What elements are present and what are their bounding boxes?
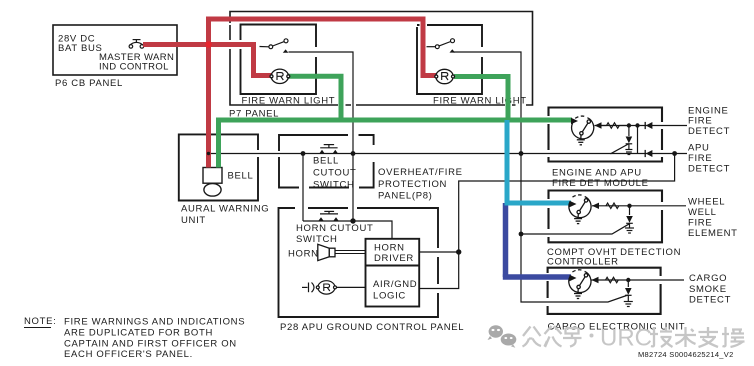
wire black: switch1 output to vertical [289, 52, 354, 221]
号 [563, 328, 582, 347]
fire warn light box 2 [417, 25, 482, 94]
wheel well line with arrow and resistor [592, 205, 686, 207]
svg-text:PANEL(P8): PANEL(P8) [378, 191, 433, 202]
wire black: bell cutout left branch down [302, 154, 304, 222]
cargo electronic unit box [548, 268, 661, 314]
svg-text:URC: URC [600, 325, 652, 352]
P6 CB panel box [53, 25, 177, 75]
down diode to ground in compt module [625, 206, 634, 233]
circuit breaker MASTER WARN IND CONTROL [129, 40, 144, 49]
P8 overheat/fire protection panel box (dashed) [279, 135, 374, 188]
compt controller labels [547, 247, 681, 268]
svg-text:HORN: HORN [288, 249, 319, 260]
svg-text:DETECT: DETECT [688, 164, 730, 175]
svg-text:BELL: BELL [313, 156, 339, 167]
svg-text:FIRE: FIRE [688, 116, 712, 127]
svg-text:FIRE: FIRE [688, 153, 712, 164]
wire black: apu detect return to horn driver / air-gnd [419, 154, 674, 289]
fire warn light box 1 [241, 25, 317, 95]
green arrow into engine detector [571, 118, 578, 124]
svg-text:APU: APU [688, 143, 710, 154]
众 [545, 326, 562, 347]
svg-text:AIR/GND: AIR/GND [373, 279, 417, 290]
wire black: bell control line y=153.5 [209, 153, 688, 155]
svg-text:P6 CB PANEL: P6 CB PANEL [55, 78, 123, 89]
wire red: drop to lamp 2 [421, 17, 426, 79]
svg-text:SWITCH: SWITCH [296, 234, 338, 245]
wire green: drop into aural unit [216, 120, 221, 168]
blue arrow into cargo detector [570, 275, 577, 281]
wire black: horn cutout line [303, 221, 392, 239]
horn speaker symbol [318, 244, 335, 260]
svg-text:CARGO: CARGO [689, 273, 727, 284]
bell cutout switch pushbutton [319, 145, 338, 154]
术 [675, 327, 696, 347]
engine and apu fire det module box [549, 108, 663, 162]
capacitor and lamp in P28 [302, 281, 366, 294]
svg-text:OVERHEAT/FIRE: OVERHEAT/FIRE [378, 167, 463, 178]
支 [699, 327, 719, 347]
援 [722, 327, 745, 347]
note text [24, 316, 245, 360]
P7 panel box [230, 12, 533, 106]
lamp 1 (fire warn light) [270, 69, 290, 83]
svg-text:CAPTAIN AND FIRST OFFICER ON: CAPTAIN AND FIRST OFFICER ON [64, 339, 237, 350]
right side labels [688, 106, 738, 306]
svg-text:HORN: HORN [374, 243, 405, 254]
aural warning unit labels [181, 171, 269, 227]
svg-text:DRIVER: DRIVER [374, 253, 414, 264]
svg-text:ENGINE AND APU: ENGINE AND APU [552, 168, 642, 179]
compt ovht detection controller box [549, 191, 663, 243]
svg-text:BAT BUS: BAT BUS [58, 43, 103, 54]
lamp R label [324, 284, 330, 291]
down diode to ground in engine module [625, 126, 632, 155]
svg-text:CUTOUT: CUTOUT [313, 168, 357, 179]
svg-text:DETECT: DETECT [689, 295, 731, 306]
wire red: CB output horizontal [143, 17, 437, 168]
svg-text:SMOKE: SMOKE [689, 284, 727, 295]
watermark text (stylized CJK strokes) [523, 326, 582, 347]
cargo smoke line with arrow and resistor [592, 279, 685, 281]
svg-text:UNIT: UNIT [181, 215, 206, 226]
switch in fire warn light 2 [427, 39, 455, 49]
horn double line to driver [335, 251, 366, 254]
svg-text:M82724 S0004625214_V2: M82724 S0004625214_V2 [638, 350, 734, 359]
resistor engine line [602, 125, 607, 127]
down diode to ground in cargo module [624, 280, 633, 307]
P6 panel labels [55, 34, 174, 90]
svg-text:ARE DUPLICATED FOR BOTH: ARE DUPLICATED FOR BOTH [64, 328, 213, 339]
wire green: main horizontal bus [216, 118, 572, 123]
engine detect line with arrow, resistor, diode [595, 125, 688, 127]
switch in fire warn light 1 [260, 39, 289, 49]
svg-text:LOGIC: LOGIC [373, 291, 406, 302]
cyan arrow into compt detector [570, 201, 577, 207]
bell symbol in aural warning unit [203, 168, 222, 197]
wire green: lamp1 to bus [216, 76, 572, 167]
wire red: drop to lamp 1 [251, 42, 256, 78]
horn cutout switch pushbutton [318, 211, 338, 220]
svg-text:AURAL WARNING: AURAL WARNING [181, 204, 269, 215]
svg-text:NOTE:: NOTE: [24, 316, 56, 327]
horn driver / air-gnd logic box [366, 239, 420, 307]
svg-text:SWITCH: SWITCH [313, 180, 355, 191]
engine module labels [552, 168, 649, 190]
wire black: compt ovht switch input [521, 224, 629, 234]
svg-text:WELL: WELL [688, 207, 717, 218]
svg-text:BELL: BELL [228, 171, 254, 182]
P8 panel labels [378, 167, 463, 202]
P28 APU ground control panel box [279, 208, 439, 317]
svg-text:FIRE WARNINGS AND INDICATIONS: FIRE WARNINGS AND INDICATIONS [64, 317, 245, 328]
diode on engine detect line [644, 122, 646, 129]
技 [650, 327, 673, 347]
watermark dot [590, 334, 594, 338]
svg-text:PROTECTION: PROTECTION [378, 179, 447, 190]
engine fire detector symbol [572, 116, 594, 145]
svg-text:FIRE WARN LIGHT: FIRE WARN LIGHT [242, 96, 336, 107]
svg-text:P28 APU GROUND CONTROL PANEL: P28 APU GROUND CONTROL PANEL [280, 322, 464, 333]
horn driver labels [373, 243, 417, 302]
horn cutout labels [296, 223, 374, 245]
wire black: switch2 output down to cargo switch [454, 52, 629, 302]
svg-text:WHEEL: WHEEL [688, 197, 725, 208]
wire red: main vertical to aural unit [206, 17, 211, 168]
公 [523, 327, 542, 347]
wire black: horn driver output [419, 251, 459, 253]
svg-text:ELEMENT: ELEMENT [688, 228, 738, 239]
bell cutout labels [313, 156, 357, 191]
svg-text:HORN CUTOUT: HORN CUTOUT [296, 223, 374, 234]
wire cyan: vertical from green bus [505, 120, 572, 203]
svg-text:CONTROLLER: CONTROLLER [547, 257, 619, 268]
svg-text:DETECT: DETECT [688, 126, 730, 137]
svg-text:IND CONTROL: IND CONTROL [99, 62, 169, 73]
cargo smoke detector symbol [569, 270, 591, 299]
svg-text:EACH OFFICER'S PANEL.: EACH OFFICER'S PANEL. [64, 349, 193, 360]
red junction node [205, 41, 211, 47]
wire blue: vertical to cargo unit [503, 203, 571, 277]
svg-text:FIRE: FIRE [688, 218, 712, 229]
watermark wechat icon [488, 325, 517, 348]
apu diode on bell line [644, 150, 646, 157]
lamp 2 (fire warn light) [435, 69, 455, 83]
svg-text:FIRE DET MODULE: FIRE DET MODULE [552, 178, 649, 189]
switch slant in engine module [611, 144, 630, 154]
compt ovht detector symbol [569, 195, 591, 224]
svg-text:FIRE WARN LIGHT: FIRE WARN LIGHT [433, 96, 527, 107]
vertical from engine line dot2 to apu line [637, 126, 639, 154]
wire red: top horizontal [206, 17, 426, 22]
wire green: lamp2 to bus [454, 74, 511, 79]
aural warning unit box [179, 134, 258, 200]
